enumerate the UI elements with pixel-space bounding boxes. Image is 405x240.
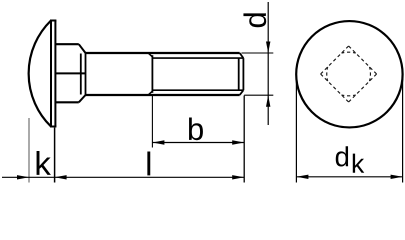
thread runout top diagonal: [148, 53, 152, 57]
hidden square neck side bottom-left: [321, 74, 349, 102]
extension line d top: [242, 52, 274, 54]
bolt head bottom edge: [50, 126, 56, 128]
arrow d bottom (pointing up): [266, 95, 270, 107]
dimension line b: [152, 142, 244, 144]
hidden square neck side top-right: [349, 46, 377, 74]
arrow b left: [152, 140, 164, 144]
arrow k left (outside, pointing right): [17, 175, 29, 179]
arrow l right: [232, 175, 244, 179]
label dk: [336, 146, 348, 166]
arrow dk left: [296, 175, 308, 179]
square neck face edge vertical: [80, 54, 82, 95]
extension line dk right: [402, 75, 404, 183]
shank top outline: [86, 52, 240, 54]
square neck bottom edge: [55, 101, 78, 103]
label d (rotated): [243, 13, 266, 27]
neck corner cut arc bottom: [342, 94, 356, 97]
dimension line d: [267, 2, 269, 125]
thread runout bottom diagonal: [148, 91, 152, 95]
neck corner cut arc top: [342, 51, 356, 54]
dimension line k and l: [2, 176, 244, 178]
end chamfer top diagonal: [240, 53, 244, 58]
extension line head tip: [28, 118, 30, 183]
extension line bolt end: [243, 96, 245, 183]
arrow l left / k right (pointing left): [55, 175, 67, 179]
square neck top chamfer: [79, 44, 86, 53]
bolt head top edge: [50, 20, 56, 22]
extension line thread start: [151, 95, 153, 148]
square neck middle corner line: [55, 72, 85, 74]
bolt head dome arc: [29, 21, 51, 127]
bolt head bearing face vertical: [54, 21, 56, 127]
square neck bottom chamfer: [79, 95, 86, 102]
head circle (front view): [296, 21, 402, 127]
hidden square neck side bottom-right: [349, 74, 377, 102]
end face vertical: [242, 58, 244, 90]
arrow dk right: [391, 175, 403, 179]
neck corner cut arc left: [326, 67, 329, 81]
label k: [37, 151, 51, 175]
thread core bottom line: [152, 89, 243, 91]
square neck top edge: [55, 43, 78, 45]
shank bottom outline: [86, 94, 240, 96]
extension line d bottom: [244, 94, 273, 96]
extension line dk left: [295, 75, 297, 183]
arrow b right: [232, 140, 244, 144]
neck-shank junction vertical: [85, 53, 87, 95]
dimension line dk: [296, 176, 402, 178]
bolt head rim vertical: [50, 21, 52, 127]
arrow d top (pointing down): [266, 42, 270, 54]
end chamfer bottom diagonal: [240, 90, 244, 95]
extension line bearing face: [54, 128, 56, 183]
label l: [147, 151, 150, 175]
thread core top line: [152, 57, 243, 59]
neck corner cut arc right: [369, 67, 372, 81]
thread start vertical: [151, 55, 153, 93]
hidden square neck side top-left: [321, 46, 349, 74]
end chamfer start vertical: [238, 58, 240, 90]
label b: [189, 117, 203, 140]
